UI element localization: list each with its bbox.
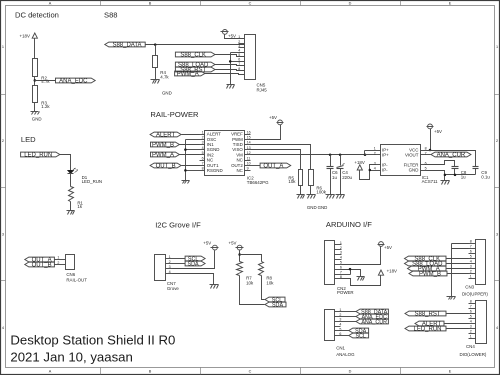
svg-text:PWM_B: PWM_B	[152, 143, 174, 149]
wire	[447, 268, 469, 270]
node junction	[329, 154, 332, 157]
svg-text:PWM_A: PWM_A	[177, 72, 199, 78]
svg-text:4: 4	[340, 256, 342, 260]
power +18V (CN2)	[378, 269, 397, 276]
net label S88_DATA	[105, 42, 145, 49]
svg-text:4.7k: 4.7k	[160, 74, 169, 79]
svg-text:Grove: Grove	[167, 286, 180, 291]
svg-text:D: D	[349, 2, 352, 6]
wire	[205, 74, 245, 75]
power +18V (DC detection)	[20, 33, 38, 38]
wire	[155, 45, 157, 56]
connector CN3 DIO(UPPER)	[462, 240, 488, 297]
net label SDA (CN1)	[349, 328, 369, 335]
svg-text:RAIL-POWER: RAIL-POWER	[150, 110, 199, 119]
power +5V (CN2)	[378, 242, 393, 251]
net label ANA_CUR	[431, 152, 471, 159]
svg-text:CN3: CN3	[465, 285, 474, 290]
op-amp U1 / motor driver IC2 TB6642PG	[200, 130, 270, 185]
svg-text:6: 6	[238, 58, 240, 62]
svg-text:5: 5	[340, 261, 342, 265]
wire	[34, 103, 36, 112]
wire	[370, 170, 375, 172]
svg-text:+5V: +5V	[229, 240, 237, 245]
svg-text:1u: 1u	[332, 175, 337, 180]
wire	[447, 328, 469, 330]
wire	[310, 186, 312, 195]
svg-text:OUT_B: OUT_B	[32, 263, 52, 269]
net label S88_DATA (CN1)	[356, 309, 388, 316]
connector CN5 RJ45 pins	[238, 35, 244, 71]
net label OUT_A (CN6)	[25, 257, 55, 264]
svg-text:1: 1	[57, 256, 59, 260]
svg-text:E: E	[449, 2, 452, 6]
wire gnd bus (CN5)	[231, 53, 245, 85]
resistor R2	[33, 59, 51, 85]
wire	[447, 263, 469, 265]
svg-text:RSGND: RSGND	[207, 168, 223, 173]
wire	[70, 202, 72, 211]
svg-text:SCL: SCL	[272, 298, 283, 304]
svg-text:5: 5	[470, 315, 472, 319]
svg-text:B: B	[149, 370, 152, 374]
svg-text:11: 11	[247, 156, 251, 160]
svg-text:1: 1	[374, 146, 376, 150]
wire	[447, 258, 469, 260]
wire GND pin	[427, 171, 445, 181]
svg-text:4: 4	[470, 320, 472, 324]
ground (CN5)	[227, 85, 235, 89]
svg-text:1k: 1k	[77, 204, 82, 209]
wire	[215, 55, 245, 57]
svg-text:SDA: SDA	[188, 262, 199, 268]
net label ANA_EDC	[56, 78, 96, 85]
svg-text:2: 2	[470, 270, 472, 274]
svg-text:NC: NC	[236, 168, 242, 173]
svg-text:S88_DATA: S88_DATA	[112, 43, 141, 49]
svg-text:IP-: IP-	[382, 168, 388, 173]
svg-text:6: 6	[470, 250, 472, 254]
node junction	[154, 43, 157, 46]
svg-text:2: 2	[470, 330, 472, 334]
net label S88_LOAD (CN3)	[405, 261, 447, 268]
section title I2C Grove I/F	[155, 220, 201, 229]
svg-text:ARDUINO I/F: ARDUINO I/F	[326, 220, 372, 229]
svg-text:2: 2	[340, 246, 342, 250]
node junction	[364, 154, 367, 157]
resistor R6 100k	[309, 170, 327, 195]
wire gnd bus (CN3)	[452, 244, 469, 297]
svg-text:C: C	[249, 2, 252, 6]
net label S88_CLK (CN3)	[405, 256, 447, 263]
wire +5V to CN5 pin1	[225, 35, 245, 39]
wire	[215, 70, 245, 71]
wire TISD to R6	[251, 145, 311, 170]
ground (R5)	[297, 195, 328, 210]
svg-text:1u: 1u	[461, 175, 466, 180]
svg-text:2021 Jan 10, yaasan: 2021 Jan 10, yaasan	[10, 349, 132, 364]
net label S88_RST	[175, 67, 215, 74]
svg-text:1: 1	[169, 255, 171, 259]
svg-text:14: 14	[247, 141, 251, 145]
net label ALERT (CN4)	[415, 321, 444, 328]
net label OUT_B	[150, 163, 181, 170]
wire	[55, 264, 66, 266]
section title S88	[104, 10, 118, 19]
ground (IC2)	[182, 181, 190, 184]
svg-text:2: 2	[57, 261, 59, 265]
svg-text:RAIL-OUT: RAIL-OUT	[66, 277, 87, 282]
wire	[34, 77, 36, 86]
ground (CN3)	[447, 297, 456, 300]
svg-text:4: 4	[238, 49, 240, 53]
svg-text:13: 13	[247, 146, 251, 150]
svg-text:7: 7	[425, 151, 427, 155]
wire	[475, 169, 477, 175]
svg-text:8: 8	[425, 146, 427, 150]
wire	[447, 273, 469, 275]
svg-text:4: 4	[169, 270, 171, 274]
net label OUT_A	[260, 163, 291, 170]
capacitor C4 220u polarized	[337, 164, 353, 181]
svg-text:220u: 220u	[342, 175, 352, 180]
wire	[155, 68, 157, 80]
node junction	[429, 149, 432, 152]
svg-text:D: D	[349, 370, 352, 374]
svg-text:+5V: +5V	[384, 245, 392, 250]
svg-text:10k: 10k	[288, 179, 296, 184]
svg-text:A: A	[49, 2, 52, 6]
svg-text:A: A	[49, 370, 52, 374]
wire	[173, 274, 214, 285]
wire	[447, 313, 469, 315]
svg-text:100k: 100k	[316, 189, 326, 194]
svg-text:1: 1	[470, 275, 472, 279]
ground (C1)	[336, 195, 345, 199]
current sensor IC1 ACS711	[374, 145, 438, 185]
wire	[70, 174, 72, 187]
svg-text:DIO(LOWER): DIO(LOWER)	[460, 352, 487, 357]
wire VCC rail	[427, 151, 476, 167]
power +5V (IC1 VCC)	[427, 124, 443, 134]
capacitor C6 1u	[327, 167, 339, 181]
wire +18V to CN2 pin8	[342, 276, 381, 286]
power +5V (CN7)	[203, 240, 218, 250]
net label LED_RUN	[21, 152, 60, 159]
wire FILTER to C8	[427, 161, 455, 167]
net label PWM_A (rail)	[151, 152, 180, 159]
svg-text:I2C Grove I/F: I2C Grove I/F	[155, 220, 201, 229]
node junction	[349, 268, 352, 271]
ground (R4)	[151, 80, 172, 96]
ground (DC detection)	[31, 112, 42, 122]
net label ANA_CUR (CN1)	[356, 319, 388, 326]
svg-text:IP+: IP+	[382, 153, 389, 158]
power +5V (PWM pin15)	[269, 115, 284, 125]
wire	[330, 155, 332, 167]
node junction	[184, 148, 187, 151]
svg-text:7: 7	[238, 62, 240, 66]
svg-text:4: 4	[2, 326, 4, 330]
svg-text:2: 2	[169, 260, 171, 264]
svg-text:ALERT: ALERT	[156, 133, 176, 139]
wire	[180, 154, 200, 156]
svg-text:POWER: POWER	[337, 290, 354, 295]
wire	[341, 330, 349, 332]
svg-text:ANA_EDC: ANA_EDC	[59, 79, 88, 85]
svg-text:+5V: +5V	[434, 129, 442, 134]
svg-text:5: 5	[238, 53, 240, 57]
node junction	[454, 174, 457, 177]
wire	[182, 165, 200, 167]
node junction	[444, 174, 447, 177]
svg-text:7: 7	[470, 305, 472, 309]
title text line 1	[10, 332, 175, 347]
svg-text:1: 1	[238, 35, 240, 39]
wire	[251, 125, 281, 140]
ground (CN2)	[357, 277, 365, 281]
ground (CN7)	[210, 285, 219, 289]
svg-text:ANA_CUR: ANA_CUR	[361, 320, 387, 326]
net label LED_RUN (CN4)	[405, 326, 446, 333]
net label S88_CLK	[175, 52, 215, 59]
svg-text:+5V: +5V	[269, 115, 277, 120]
wire gnd (CN2)	[342, 270, 361, 277]
capacitor C8 1u	[452, 167, 467, 180]
wire	[341, 335, 349, 337]
ground (C4)	[326, 195, 335, 199]
section title LED	[21, 135, 36, 144]
net label S88_RST (CN4)	[405, 311, 446, 318]
svg-text:+5V: +5V	[228, 34, 236, 39]
wire	[182, 134, 200, 136]
wire	[340, 155, 342, 166]
svg-text:PWM_B: PWM_B	[419, 272, 441, 278]
svg-text:4: 4	[339, 323, 341, 327]
wire VM rail	[251, 154, 365, 156]
svg-text:GND: GND	[162, 91, 172, 96]
resistor R3	[33, 86, 51, 110]
svg-text:ANALOG: ANALOG	[336, 352, 355, 357]
svg-text:E: E	[449, 370, 452, 374]
wire	[173, 263, 186, 265]
svg-text:GND: GND	[307, 205, 317, 210]
svg-text:DC detection: DC detection	[15, 10, 59, 19]
net label SCL (CN1)	[349, 333, 369, 340]
svg-text:CN1: CN1	[336, 346, 345, 351]
wire	[60, 155, 71, 171]
svg-text:7: 7	[470, 245, 472, 249]
net label ALERT	[150, 132, 181, 139]
capacitor C9 0.1u	[473, 167, 491, 180]
svg-text:6: 6	[470, 310, 472, 314]
svg-text:16: 16	[247, 130, 251, 134]
svg-text:OUT_A: OUT_A	[263, 164, 283, 170]
svg-text:3: 3	[2, 232, 4, 236]
resistor R1 1k	[69, 187, 84, 210]
svg-text:+5V: +5V	[203, 240, 211, 245]
svg-text:10k: 10k	[246, 280, 254, 285]
wire	[445, 323, 469, 325]
connector CN6 RAIL-OUT	[66, 255, 88, 283]
svg-text:10: 10	[247, 162, 251, 166]
wire	[341, 321, 357, 323]
resistor R7 10k	[237, 262, 254, 286]
svg-text:15: 15	[247, 136, 251, 140]
svg-text:+18V: +18V	[387, 269, 397, 274]
svg-text:8: 8	[470, 300, 472, 304]
svg-text:4: 4	[202, 146, 204, 150]
node junction	[369, 169, 372, 172]
svg-text:4: 4	[496, 326, 498, 330]
wire	[240, 255, 262, 262]
wire	[341, 311, 357, 313]
title text line 2	[10, 349, 132, 364]
wire	[300, 186, 302, 195]
net label ANA_EDC (CN1)	[356, 314, 388, 321]
section title DC detection	[15, 10, 59, 19]
svg-text:LED: LED	[21, 135, 36, 144]
resistor R4	[153, 56, 170, 80]
net label SCL (pullup)	[265, 297, 285, 304]
svg-text:1.2k: 1.2k	[41, 104, 50, 109]
svg-text:CN6: CN6	[66, 272, 75, 277]
svg-text:LED_RUN: LED_RUN	[24, 153, 52, 159]
ground (R6)	[307, 195, 316, 199]
svg-text:8: 8	[470, 240, 472, 244]
connector CN2 POWER	[325, 241, 354, 296]
connector CN1 ANALOG	[325, 308, 356, 357]
svg-text:GND: GND	[318, 205, 328, 210]
wire	[180, 144, 200, 146]
ground (IC1)	[441, 181, 450, 185]
wire	[430, 129, 432, 151]
svg-text:OUT_B: OUT_B	[156, 164, 176, 170]
net label PWM_B (CN3)	[409, 271, 447, 278]
connector CN5 RJ45	[245, 35, 268, 93]
net label PWM_B	[151, 142, 180, 149]
wire gnd rail	[445, 174, 476, 176]
wire	[55, 259, 66, 261]
node junction	[339, 154, 342, 157]
svg-text:3: 3	[340, 251, 342, 255]
svg-text:6: 6	[340, 265, 342, 269]
wire VM to IP+	[365, 151, 375, 155]
svg-text:LED_RUN: LED_RUN	[82, 179, 103, 184]
connector CN7 Grove	[155, 255, 180, 291]
wire	[330, 169, 332, 195]
svg-text:GND: GND	[409, 168, 419, 173]
connector CN6 RAIL-OUT pins	[57, 256, 59, 265]
svg-text:GND: GND	[32, 116, 42, 121]
power +18V (IP-)	[354, 160, 364, 170]
net label SDA (CN7)	[185, 261, 205, 268]
svg-text:12: 12	[247, 151, 251, 155]
net label SCL (CN7)	[185, 256, 205, 263]
net label PWM_A (CN3)	[408, 266, 447, 273]
svg-text:7: 7	[202, 162, 204, 166]
svg-text:SCL: SCL	[355, 334, 366, 340]
wire	[239, 251, 241, 262]
svg-text:4: 4	[470, 260, 472, 264]
net label OUT_B (CN6)	[25, 262, 55, 269]
svg-text:3: 3	[238, 44, 240, 48]
svg-text:ACS711: ACS711	[422, 179, 439, 184]
ground (LED)	[67, 211, 75, 215]
svg-text:1: 1	[2, 45, 4, 49]
svg-text:B: B	[149, 2, 152, 6]
net label SDA (pullup)	[265, 302, 286, 309]
wire	[341, 316, 357, 318]
svg-text:10k: 10k	[266, 280, 274, 285]
svg-text:DIO(UPPER): DIO(UPPER)	[462, 291, 488, 296]
svg-text:TB6642PG: TB6642PG	[247, 180, 269, 185]
wire VISO to R5	[251, 150, 301, 170]
node junction	[184, 169, 187, 172]
svg-text:CN4: CN4	[466, 344, 475, 349]
power +5V (I2C pullups)	[229, 240, 244, 250]
wire	[454, 169, 456, 175]
net label S88_LOAD	[175, 62, 215, 69]
wire	[251, 165, 261, 167]
wire gnd bus (IC2)	[186, 140, 200, 181]
wire	[262, 276, 265, 300]
svg-text:S88_RST: S88_RST	[414, 312, 440, 318]
svg-text:1: 1	[340, 241, 342, 245]
section title RAIL-POWER	[150, 110, 199, 119]
svg-text:5: 5	[470, 255, 472, 259]
svg-text:5: 5	[425, 166, 427, 170]
svg-text:3: 3	[470, 325, 472, 329]
svg-text:6: 6	[202, 156, 204, 160]
svg-text:C: C	[249, 370, 252, 374]
svg-text:+18V: +18V	[354, 160, 364, 165]
svg-text:3: 3	[169, 265, 171, 269]
wire +5V to CN2 pin5	[342, 247, 381, 265]
svg-text:8: 8	[238, 67, 240, 71]
svg-text:9: 9	[247, 167, 249, 171]
svg-text:1: 1	[496, 45, 498, 49]
svg-text:2: 2	[202, 136, 204, 140]
svg-text:5: 5	[202, 151, 204, 155]
wire S88_DATA to CN5	[146, 44, 245, 46]
wire	[240, 276, 265, 305]
wire	[215, 65, 245, 66]
svg-text:VIOUT: VIOUT	[405, 153, 419, 158]
section title ARDUINO I/F	[326, 220, 372, 229]
svg-text:4.7k: 4.7k	[41, 79, 50, 84]
svg-text:2: 2	[2, 139, 4, 143]
wire	[427, 154, 431, 156]
svg-text:1: 1	[470, 335, 472, 339]
svg-text:0.1u: 0.1u	[481, 175, 490, 180]
wire	[173, 258, 186, 260]
power +5V (S88)	[221, 30, 237, 39]
svg-text:6: 6	[425, 161, 427, 165]
svg-text:ANA_CUR: ANA_CUR	[437, 153, 466, 159]
net label PWM_A (S88)	[175, 71, 205, 78]
svg-text:PWM_A: PWM_A	[152, 153, 174, 159]
svg-text:LED_RUN: LED_RUN	[413, 327, 441, 333]
svg-text:4: 4	[374, 166, 376, 170]
resistor R8 10k	[259, 262, 275, 286]
svg-text:S88: S88	[104, 10, 118, 19]
wire	[340, 169, 342, 195]
node junction	[229, 60, 232, 63]
LED D1	[67, 168, 102, 184]
svg-text:8: 8	[202, 167, 204, 171]
svg-text:3: 3	[470, 265, 472, 269]
